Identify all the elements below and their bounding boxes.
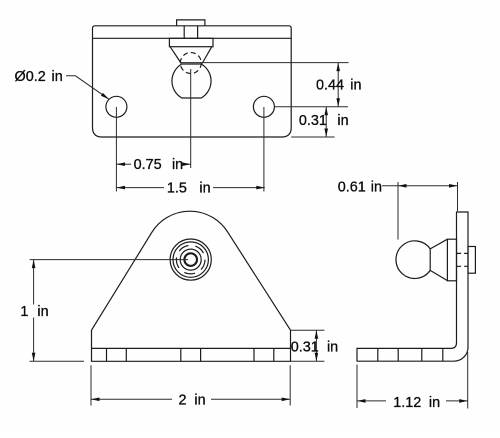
svg-text:in: in — [194, 393, 205, 409]
dimension line 1.12 left segment — [357, 400, 386, 402]
arrow 0.61 left — [398, 184, 407, 188]
svg-text:0.31: 0.31 — [291, 340, 319, 356]
top view hidden hole circle — [180, 53, 201, 74]
side view base tick 1 — [377, 348, 379, 361]
extension line 1.12 right — [467, 352, 469, 409]
side view base tick 3 — [421, 348, 423, 361]
arrow 0.31 front up — [315, 330, 319, 339]
top view bend line — [93, 37, 292, 39]
arrow 0.31 front down — [315, 353, 319, 362]
dimension line 1.5 left segment — [117, 187, 165, 189]
side view taper top edge — [430, 239, 447, 249]
arrow 2in right — [282, 398, 291, 402]
dimension line 0.31 front vertical — [315, 330, 317, 361]
arrow 0.75 left — [117, 162, 126, 166]
dimension line 1.12 right segment — [446, 400, 468, 402]
leader line for hole diameter — [66, 76, 109, 99]
svg-text:0.75: 0.75 — [134, 157, 162, 173]
arrow 1.5 left — [117, 186, 126, 190]
top view stud shaft edge right — [197, 26, 199, 39]
dimension line 0.75 left segment — [117, 163, 132, 165]
side view stud shaft line upper — [457, 252, 469, 254]
top view ball circle — [172, 64, 211, 98]
svg-text:1: 1 — [20, 304, 28, 320]
dimension line 0.61 with leader — [382, 185, 458, 187]
arrow 0.61 right — [449, 184, 458, 188]
top view main plate outline — [93, 26, 292, 137]
front view base tick 5 — [253, 348, 255, 361]
extension line from ball center to right — [181, 62, 349, 64]
front view base tick 4 — [200, 348, 202, 361]
svg-text:2: 2 — [178, 393, 186, 409]
arrow 0.44 down — [336, 98, 340, 107]
side view ball circle — [396, 241, 430, 279]
svg-text:in: in — [37, 304, 48, 320]
svg-text:in: in — [52, 69, 63, 85]
top view stud shaft edge left — [183, 26, 185, 39]
extension line 0.31 front bottom — [291, 360, 325, 362]
extension line 2 in left — [90, 365, 92, 405]
top view stud tab — [177, 20, 205, 26]
front view ball stud circle 2 — [173, 242, 208, 277]
svg-text:0.61: 0.61 — [338, 180, 366, 196]
dimension line 1 in vertical — [33, 260, 35, 305]
arrow hole leader — [101, 93, 110, 101]
top view taper right edge — [202, 47, 212, 64]
arrow 1.5 right — [256, 186, 265, 190]
svg-text:1.12: 1.12 — [393, 395, 421, 411]
arrow 1in down — [32, 353, 36, 362]
front view bracket outline — [92, 211, 291, 361]
front view base top edge — [92, 347, 291, 349]
extension line ball left edge vertical — [397, 182, 399, 240]
arrow 0.75 right — [182, 162, 191, 166]
extension line below left hole — [115, 107, 117, 192]
dimension line 0.75 right segment — [185, 163, 191, 165]
side view base tick 4 — [442, 348, 444, 361]
arrow 1in up — [32, 260, 36, 269]
front view ball stud dashed circle — [176, 245, 205, 274]
svg-text:in: in — [172, 157, 183, 173]
svg-text:in: in — [350, 78, 361, 94]
front view base tick 1 — [106, 348, 108, 361]
side view taper bottom edge — [430, 270, 447, 280]
svg-text:in: in — [371, 180, 382, 196]
side view nut block — [468, 247, 475, 274]
top view left hole — [106, 96, 127, 117]
extension line 2 in right — [289, 365, 291, 405]
arrow 2in left — [91, 398, 100, 402]
dimension line 2 in right segment — [211, 398, 290, 400]
top view right hole — [253, 96, 274, 117]
front view ball stud circle 4 — [180, 249, 201, 270]
extension line bottom left — [30, 360, 84, 362]
side view L bracket outline — [357, 212, 468, 361]
extension line 1.12 left — [356, 365, 358, 409]
front view ball stud outer circle — [170, 239, 211, 280]
extension line below right hole — [263, 107, 265, 192]
arrow 0.31 down — [324, 129, 328, 138]
front view base tick 6 — [273, 348, 275, 361]
svg-text:0.44: 0.44 — [316, 78, 344, 94]
side view stud shaft line lower — [457, 265, 469, 267]
top view flange — [169, 38, 213, 46]
extension line below ball center — [190, 69, 192, 168]
dimension line 0.44 vertical — [337, 63, 339, 107]
side view flange — [447, 239, 456, 281]
svg-text:in: in — [327, 340, 338, 356]
extension line plate face vertical — [457, 182, 459, 211]
dimension line 1.5 right segment — [213, 187, 265, 189]
side view base tick 2 — [397, 348, 399, 361]
front view ball stud inner circle — [184, 253, 197, 266]
arrow 0.44 up — [336, 63, 340, 72]
arrow 1.12 right — [459, 399, 468, 403]
front view base tick 2 — [125, 348, 127, 361]
dimension line 0.31 vertical — [325, 107, 327, 137]
extension line from plate bottom edge to right — [291, 136, 334, 138]
svg-text:Ø0.2: Ø0.2 — [15, 69, 46, 85]
top view taper left edge — [170, 47, 181, 64]
svg-text:1.5: 1.5 — [167, 181, 187, 197]
svg-text:0.31: 0.31 — [299, 113, 327, 129]
dimension line 2 in left segment — [91, 398, 172, 400]
svg-text:in: in — [429, 395, 440, 411]
extension line from stud center to left — [30, 259, 188, 261]
front view base tick 3 — [180, 348, 182, 361]
svg-text:in: in — [199, 181, 210, 197]
svg-text:in: in — [337, 113, 348, 129]
extension line from right hole to right — [275, 106, 349, 108]
extension line 0.31 front top — [291, 329, 325, 331]
arrow 0.31 up — [324, 107, 328, 116]
arrow 1.12 left — [357, 399, 366, 403]
